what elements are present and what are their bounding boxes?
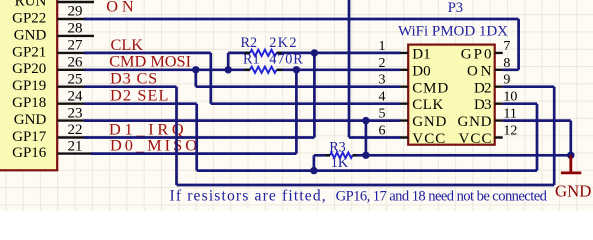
- svg-text:28: 28: [68, 21, 83, 37]
- svg-text:GND: GND: [14, 27, 47, 43]
- svg-text:D1: D1: [412, 47, 430, 63]
- svg-text:3: 3: [379, 73, 386, 88]
- svg-text:D0: D0: [412, 63, 430, 79]
- svg-text:RUN: RUN: [15, 0, 47, 9]
- svg-text:VCC: VCC: [412, 131, 445, 147]
- svg-text:R2: R2: [241, 35, 258, 51]
- svg-text:12: 12: [503, 124, 517, 139]
- svg-text:21: 21: [68, 138, 83, 154]
- svg-text:GP19: GP19: [12, 78, 46, 94]
- svg-text:27: 27: [68, 38, 84, 54]
- svg-text:29: 29: [68, 4, 83, 20]
- svg-text:D2 SEL: D2 SEL: [110, 86, 169, 105]
- svg-text:26: 26: [68, 55, 84, 71]
- svg-text:CLK: CLK: [412, 97, 443, 113]
- svg-text:470R: 470R: [269, 52, 303, 68]
- svg-text:11: 11: [503, 107, 516, 122]
- svg-text:D3: D3: [474, 97, 492, 113]
- svg-text:GP0: GP0: [461, 47, 492, 63]
- svg-text:22: 22: [68, 122, 83, 138]
- svg-text:R1: R1: [243, 52, 260, 68]
- svg-text:P3: P3: [448, 0, 463, 16]
- svg-text:5: 5: [379, 107, 386, 122]
- svg-text:GND: GND: [412, 114, 446, 130]
- svg-text:GP22: GP22: [12, 10, 46, 26]
- svg-text:GP21: GP21: [12, 44, 46, 60]
- svg-text:9: 9: [503, 73, 510, 88]
- svg-text:GP20: GP20: [12, 61, 46, 77]
- svg-text:8: 8: [503, 56, 510, 71]
- svg-text:6: 6: [379, 124, 386, 139]
- svg-text:25: 25: [68, 71, 83, 87]
- svg-text:D2: D2: [474, 80, 492, 96]
- svg-text:24: 24: [68, 88, 84, 104]
- svg-text:2K2: 2K2: [269, 35, 296, 51]
- svg-text:GP18: GP18: [12, 95, 46, 111]
- svg-text:VCC: VCC: [459, 131, 492, 147]
- svg-text:GND: GND: [555, 182, 591, 201]
- svg-text:23: 23: [68, 105, 83, 121]
- svg-text:WiFi PMOD 1DX: WiFi PMOD 1DX: [398, 23, 508, 39]
- svg-text:4: 4: [379, 90, 386, 105]
- svg-text:1: 1: [379, 39, 386, 54]
- svg-text:R3: R3: [329, 140, 346, 156]
- svg-text:GND: GND: [458, 114, 492, 130]
- svg-text:GP17: GP17: [12, 129, 47, 145]
- svg-text:If resistors are fitted,: If resistors are fitted,: [170, 188, 326, 205]
- svg-text:7: 7: [503, 39, 510, 54]
- svg-text:CMD: CMD: [412, 80, 448, 96]
- svg-text:GP16: GP16: [12, 145, 47, 161]
- svg-text:1K: 1K: [331, 155, 349, 171]
- svg-text:2: 2: [379, 56, 386, 71]
- svg-text:GP16, 17 and 18 need not be co: GP16, 17 and 18 need not be connected: [336, 189, 548, 205]
- svg-text:10: 10: [503, 90, 517, 105]
- svg-text:GND: GND: [14, 112, 47, 128]
